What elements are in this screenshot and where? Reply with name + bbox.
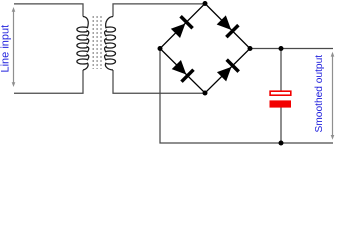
svg-text:Line input: Line input (0, 25, 12, 73)
svg-text:Smoothed output: Smoothed output (314, 55, 325, 133)
